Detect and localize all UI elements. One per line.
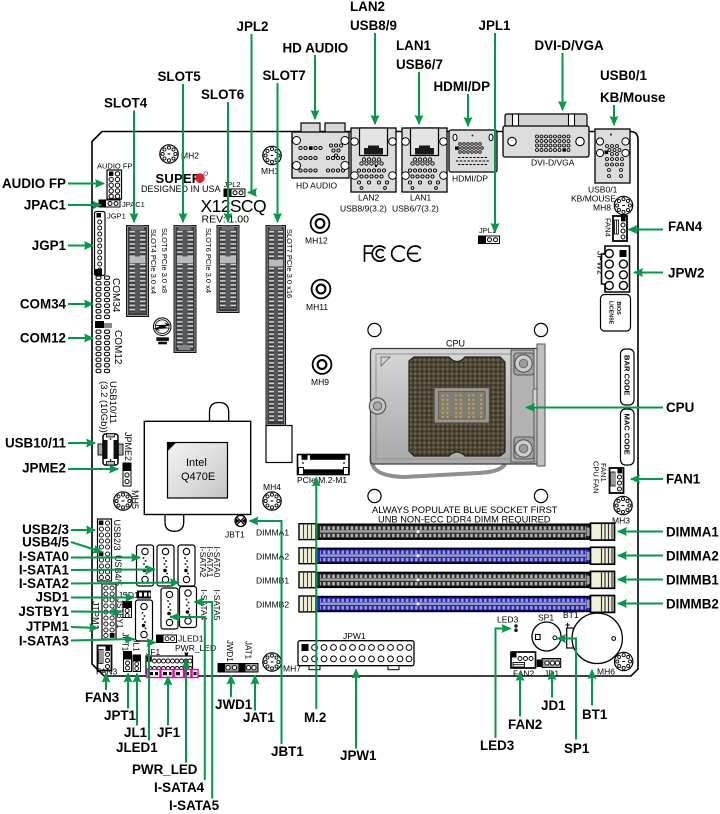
arrow SLOT5 bbox=[182, 84, 184, 222]
USB10/11 connector bbox=[98, 434, 123, 466]
LAN2 connector bbox=[351, 128, 397, 192]
svg-text:SLOT6: SLOT6 bbox=[201, 87, 244, 102]
arrow FAN3 bbox=[105, 674, 107, 691]
arrow USB4/5 bbox=[71, 542, 102, 552]
mounting hole MH3 bbox=[614, 496, 632, 514]
mounting hole MH6 bbox=[615, 652, 633, 670]
DIMMB1 slot bbox=[299, 571, 615, 588]
svg-text:SLOT7: SLOT7 bbox=[263, 68, 306, 83]
mounting hole MH4 bbox=[263, 492, 281, 510]
svg-text:LICENSE: LICENSE bbox=[608, 301, 614, 325]
svg-text:HDMI/DP: HDMI/DP bbox=[452, 174, 488, 184]
svg-text:I-SATA5: I-SATA5 bbox=[212, 590, 222, 621]
LAN1 connector bbox=[402, 128, 448, 192]
svg-text:ALWAYS POPULATE BLUE SOCKET FI: ALWAYS POPULATE BLUE SOCKET FIRST bbox=[372, 505, 558, 515]
AUDIO FP header bbox=[97, 162, 132, 200]
JAT1 jumper bbox=[239, 641, 258, 672]
PCIe M.2-M1 connector bbox=[298, 455, 350, 475]
mounting hole MH7 bbox=[263, 653, 281, 671]
arrow LAN1 bbox=[418, 72, 420, 124]
svg-text:CPU FAN: CPU FAN bbox=[592, 461, 601, 494]
BIOS LICENSE sticker bbox=[601, 295, 631, 332]
svg-text:USB10/11: USB10/11 bbox=[5, 436, 67, 451]
arrow JPME2 bbox=[68, 468, 118, 470]
svg-text:LAN2: LAN2 bbox=[350, 0, 385, 14]
svg-text:JGP1: JGP1 bbox=[32, 238, 67, 253]
svg-text:DESIGNED IN USA: DESIGNED IN USA bbox=[141, 184, 221, 194]
svg-text:COM34: COM34 bbox=[110, 278, 121, 313]
svg-text:BAR CODE: BAR CODE bbox=[623, 355, 632, 396]
svg-text:DIMMA1: DIMMA1 bbox=[256, 528, 289, 538]
arrow JPAC1 bbox=[68, 204, 101, 206]
svg-text:JPAC1: JPAC1 bbox=[24, 198, 67, 213]
mounting hole MH5 bbox=[114, 492, 132, 510]
svg-text:DIMMB2: DIMMB2 bbox=[256, 600, 289, 610]
MAC CODE box bbox=[621, 409, 635, 465]
svg-text:JPL1: JPL1 bbox=[479, 18, 512, 33]
svg-text:JPL2: JPL2 bbox=[224, 180, 241, 189]
arrow USB10/11 bbox=[68, 442, 95, 444]
mounting hole MH9 bbox=[313, 355, 332, 374]
arrow AUDIO FP bbox=[68, 183, 104, 185]
svg-text:JAT1: JAT1 bbox=[243, 710, 275, 725]
svg-text:PWR_LED: PWR_LED bbox=[175, 643, 216, 653]
svg-text:DIMMB1: DIMMB1 bbox=[256, 576, 289, 586]
arrow JTPM1 bbox=[71, 627, 98, 628]
arrow COM34 bbox=[68, 303, 93, 305]
arrow SP1 bbox=[557, 639, 576, 740]
svg-text:DIMMA2: DIMMA2 bbox=[666, 549, 719, 564]
svg-text:MH4: MH4 bbox=[263, 482, 281, 492]
I-SATA4 port bbox=[161, 588, 178, 629]
svg-text:SP1: SP1 bbox=[538, 613, 554, 623]
svg-text:DIMMB1: DIMMB1 bbox=[666, 573, 719, 588]
I-SATA1 port bbox=[157, 545, 174, 586]
svg-text:JWD1: JWD1 bbox=[225, 640, 234, 662]
JWD1 jumper bbox=[218, 640, 239, 672]
svg-text:JTPM1: JTPM1 bbox=[91, 601, 101, 630]
svg-text:CPU: CPU bbox=[666, 400, 694, 415]
SLOT7 PCIe slot bbox=[266, 226, 286, 426]
svg-text:MH1: MH1 bbox=[261, 166, 279, 176]
svg-text:MH8: MH8 bbox=[593, 203, 611, 213]
svg-text:MH11: MH11 bbox=[306, 302, 328, 312]
svg-text:LAN1: LAN1 bbox=[396, 38, 432, 53]
svg-text:SLOT4: SLOT4 bbox=[104, 96, 148, 111]
svg-text:SLOT6 PCIe 3.0 x4: SLOT6 PCIe 3.0 x4 bbox=[204, 228, 213, 293]
arrow DIMMB1 bbox=[618, 579, 663, 581]
svg-text:JPL2: JPL2 bbox=[237, 19, 269, 34]
JSD1 connector bbox=[118, 590, 151, 600]
COM34 header bbox=[95, 269, 121, 319]
arrow JD1 bbox=[551, 671, 553, 698]
arrow HD AUDIO bbox=[314, 55, 316, 119]
svg-text:DVI-D/VGA: DVI-D/VGA bbox=[535, 38, 605, 53]
USB2/3 USB4/5 header bbox=[98, 519, 124, 586]
arrow SLOT6 bbox=[227, 102, 229, 222]
mounting hole MH2 bbox=[160, 145, 178, 163]
arrow LAN2 bbox=[374, 33, 376, 124]
CE mark bbox=[392, 246, 421, 261]
svg-text:JF1: JF1 bbox=[157, 725, 181, 740]
JF1 front panel header bbox=[146, 647, 193, 674]
svg-text:COM12: COM12 bbox=[20, 331, 66, 346]
arrow DIMMA2 bbox=[618, 555, 663, 557]
svg-text:SLOT5 PCIe 3.0 x8: SLOT5 PCIe 3.0 x8 bbox=[160, 228, 169, 293]
svg-text:MH5: MH5 bbox=[130, 490, 140, 509]
svg-text:JSD1: JSD1 bbox=[36, 590, 70, 605]
FCC mark bbox=[365, 246, 385, 261]
svg-text:Q470E: Q470E bbox=[181, 471, 215, 483]
svg-text:FAN4: FAN4 bbox=[668, 219, 703, 234]
arrow JLED1 bbox=[149, 643, 156, 741]
svg-text:FAN4: FAN4 bbox=[604, 218, 613, 237]
SP1 speaker bbox=[532, 613, 561, 652]
callout labels bottom bbox=[85, 690, 608, 813]
svg-text:JGP1: JGP1 bbox=[107, 212, 126, 221]
svg-text:JD1: JD1 bbox=[541, 698, 566, 713]
I-SATA2 port bbox=[178, 545, 195, 586]
arrow USB2/3 bbox=[71, 529, 95, 531]
arrow I-SATA0 bbox=[71, 557, 140, 559]
BAR CODE box bbox=[621, 349, 635, 405]
FAN3 connector bbox=[96, 646, 118, 677]
svg-text:SLOT5: SLOT5 bbox=[158, 69, 202, 84]
JPW1 24-pin ATX power bbox=[298, 631, 414, 670]
CPU socket mounting circles bbox=[368, 323, 381, 336]
svg-text:JPME2: JPME2 bbox=[123, 432, 133, 461]
svg-text:MH9: MH9 bbox=[311, 377, 329, 387]
arrow I-SATA2 bbox=[71, 583, 179, 584]
certification emblem bbox=[153, 318, 171, 344]
svg-text:PCIe M.2-M1: PCIe M.2-M1 bbox=[297, 475, 347, 485]
arrows bbox=[68, 33, 663, 799]
svg-text:MH12: MH12 bbox=[305, 236, 328, 246]
svg-text:I-SATA3: I-SATA3 bbox=[19, 634, 69, 649]
arrow DIMMA1 bbox=[618, 531, 663, 533]
svg-text:UNB NON-ECC DDR4 DIMM REQUIRED: UNB NON-ECC DDR4 DIMM REQUIRED bbox=[378, 515, 551, 525]
JGP1 header bbox=[95, 212, 126, 276]
svg-text:LAN2: LAN2 bbox=[358, 193, 380, 203]
JPW2 power connector bbox=[596, 246, 630, 292]
JPME2 jumper bbox=[123, 432, 133, 486]
svg-text:USB6/7(3.2): USB6/7(3.2) bbox=[392, 204, 439, 214]
svg-text:JPL1: JPL1 bbox=[479, 226, 496, 235]
arrow JPW1 bbox=[355, 670, 357, 749]
svg-text:DIMMA2: DIMMA2 bbox=[256, 552, 289, 562]
arrow DIMMB2 bbox=[618, 603, 663, 605]
svg-text:JLED1: JLED1 bbox=[178, 634, 204, 644]
PCH chip Intel Q470E bbox=[144, 403, 250, 532]
arrow JAT1 bbox=[254, 676, 256, 711]
JPAC1 jumper bbox=[99, 200, 145, 209]
svg-text:JL1: JL1 bbox=[124, 725, 148, 740]
arrow SLOT7 bbox=[277, 83, 279, 222]
svg-text:AUDIO FP: AUDIO FP bbox=[97, 162, 132, 171]
arrow JPW2 bbox=[634, 272, 663, 274]
svg-text:BT1: BT1 bbox=[563, 610, 579, 620]
HDMI/DP connector bbox=[449, 130, 497, 172]
arrow I-SATA1 bbox=[71, 569, 155, 572]
svg-text:USB0/1: USB0/1 bbox=[600, 68, 647, 83]
I-SATA0 port bbox=[137, 545, 154, 586]
svg-text:JLED1: JLED1 bbox=[116, 740, 158, 755]
JLED1 jumper bbox=[157, 634, 204, 644]
mounting hole MH1 bbox=[263, 146, 281, 164]
JL1 jumper bbox=[132, 639, 141, 672]
svg-text:SLOT7 PCIe 3.0 x16: SLOT7 PCIe 3.0 x16 bbox=[285, 229, 294, 298]
svg-text:JPW1: JPW1 bbox=[340, 748, 377, 763]
svg-text:I-SATA4: I-SATA4 bbox=[154, 780, 205, 795]
svg-text:LED3: LED3 bbox=[480, 738, 514, 753]
svg-text:JPT1: JPT1 bbox=[121, 633, 130, 652]
BT1 battery bbox=[563, 610, 622, 664]
svg-text:BT1: BT1 bbox=[582, 707, 608, 722]
arrow JF1 bbox=[167, 677, 169, 726]
svg-text:(3.2 (10Gb)): (3.2 (10Gb)) bbox=[98, 381, 109, 433]
svg-text:LED3: LED3 bbox=[497, 615, 519, 625]
mounting hole MH12 bbox=[311, 214, 330, 233]
svg-text:USB2/3: USB2/3 bbox=[112, 520, 122, 551]
callout labels left bbox=[2, 176, 70, 649]
svg-text:FAN2: FAN2 bbox=[508, 717, 542, 732]
DIMMA2 slot bbox=[299, 547, 615, 564]
mounting hole MH8 bbox=[614, 196, 632, 214]
svg-text:JBT1: JBT1 bbox=[271, 744, 304, 759]
svg-text:DVI-D/VGA: DVI-D/VGA bbox=[531, 158, 575, 168]
svg-text:HD AUDIO: HD AUDIO bbox=[283, 41, 349, 56]
arrow JWD1 bbox=[230, 676, 232, 698]
arrow PWR_LED bbox=[185, 660, 187, 763]
JSTBY1 jumper bbox=[115, 599, 132, 629]
arrow JSD1 bbox=[71, 597, 134, 599]
arrow JPT1 bbox=[127, 674, 129, 709]
arrow JL1 bbox=[136, 674, 138, 726]
svg-text:COM12: COM12 bbox=[112, 330, 123, 365]
arrow I-SATA3 bbox=[71, 639, 134, 641]
Supermicro logo bbox=[141, 171, 221, 194]
white box below SLOT7 bbox=[266, 426, 292, 463]
SLOT4 PCIe slot bbox=[127, 226, 149, 317]
svg-text:MH6: MH6 bbox=[597, 667, 615, 677]
svg-text:USB4/5: USB4/5 bbox=[22, 535, 69, 550]
svg-text:COM34: COM34 bbox=[20, 297, 67, 312]
DIMMA1 slot bbox=[299, 523, 615, 540]
SLOT6 PCIe slot bbox=[217, 226, 239, 313]
arrow JSTBY1 bbox=[71, 611, 121, 614]
I-SATA5 port bbox=[180, 587, 197, 628]
svg-text:HDMI/DP: HDMI/DP bbox=[434, 79, 491, 94]
arrow DVI-D/VGA bbox=[562, 53, 564, 110]
JBT1 battery clear pads bbox=[235, 515, 246, 526]
LED3 component bbox=[497, 615, 519, 633]
svg-text:CPU: CPU bbox=[446, 339, 465, 349]
svg-text:JTPM1: JTPM1 bbox=[26, 619, 70, 634]
SLOT5 PCIe slot bbox=[174, 226, 196, 353]
arrow M.2 bbox=[315, 478, 317, 710]
USB0/1 KB/MOUSE connector bbox=[595, 129, 630, 183]
svg-text:AUDIO FP: AUDIO FP bbox=[2, 176, 66, 191]
callout labels top bbox=[104, 0, 665, 111]
svg-text:I-SATA0: I-SATA0 bbox=[212, 547, 222, 578]
JPT1 jumper bbox=[121, 633, 132, 672]
HD AUDIO connector bbox=[292, 123, 349, 178]
mounting hole MH11 bbox=[312, 280, 331, 299]
arrow JGP1 bbox=[68, 245, 93, 247]
JD1 header bbox=[537, 659, 561, 679]
arrow HDMI/DP bbox=[467, 94, 469, 126]
arrow JPL1 bbox=[494, 33, 496, 232]
svg-text:FAN2: FAN2 bbox=[513, 669, 535, 679]
arrow BT1 bbox=[591, 670, 593, 706]
svg-text:REV: 1.00: REV: 1.00 bbox=[202, 214, 250, 226]
svg-text:MAC CODE: MAC CODE bbox=[623, 414, 632, 455]
svg-text:KB/Mouse: KB/Mouse bbox=[600, 90, 665, 105]
JPL1 jumper bbox=[479, 226, 500, 244]
DIMMB2 slot bbox=[299, 596, 615, 613]
svg-text:I-SATA4: I-SATA4 bbox=[199, 590, 209, 621]
CPU socket bbox=[369, 344, 545, 477]
svg-text:SP1: SP1 bbox=[564, 741, 590, 756]
svg-text:M.2: M.2 bbox=[304, 710, 326, 725]
PWR_LED onboard label bbox=[175, 643, 216, 659]
svg-text:USB8/9(3.2): USB8/9(3.2) bbox=[340, 204, 387, 214]
FAN2 connector bbox=[511, 652, 536, 679]
arrow FAN1 bbox=[631, 478, 663, 480]
motherboard outline bbox=[92, 132, 638, 677]
svg-text:JPW1: JPW1 bbox=[343, 631, 366, 641]
svg-text:MH3: MH3 bbox=[612, 516, 630, 526]
svg-text:JBT1: JBT1 bbox=[225, 530, 245, 540]
svg-text:FAN1: FAN1 bbox=[666, 472, 701, 487]
svg-text:USB8/9: USB8/9 bbox=[350, 18, 397, 33]
JF1 pink pin legend bbox=[147, 670, 198, 678]
arrow JBT1 bbox=[250, 521, 282, 744]
arrow CPU bbox=[526, 407, 663, 409]
arrow SLOT4 bbox=[133, 111, 135, 223]
svg-text:JPT1: JPT1 bbox=[104, 708, 137, 723]
JTPM1 header bbox=[91, 584, 117, 639]
arrow LED3 bbox=[496, 629, 511, 739]
svg-text:USB6/7: USB6/7 bbox=[396, 57, 443, 72]
I-SATA3 port bbox=[136, 600, 153, 641]
svg-text:JAT1: JAT1 bbox=[244, 641, 253, 660]
svg-text:JPW2: JPW2 bbox=[668, 266, 704, 281]
arrow FAN4 bbox=[629, 229, 664, 231]
callout labels right bbox=[666, 219, 719, 612]
svg-text:LAN1: LAN1 bbox=[410, 193, 432, 203]
FAN4 connector bbox=[604, 216, 628, 241]
arrow JPL2 bbox=[248, 34, 252, 193]
svg-text:JSTBY1: JSTBY1 bbox=[18, 604, 69, 619]
COM12 header bbox=[95, 321, 123, 373]
svg-text:BIOS: BIOS bbox=[615, 302, 621, 316]
svg-text:SLOT4 PCIe 3.0 x4: SLOT4 PCIe 3.0 x4 bbox=[149, 229, 158, 294]
svg-text:PWR_LED: PWR_LED bbox=[132, 762, 198, 777]
arrow FAN2 bbox=[519, 672, 521, 717]
JPL2 jumper bbox=[224, 180, 246, 197]
DVI-D/VGA connector bbox=[503, 114, 589, 157]
svg-text:HD AUDIO: HD AUDIO bbox=[296, 181, 337, 191]
arrow I-SATA4 bbox=[171, 617, 205, 780]
svg-text:DIMMB2: DIMMB2 bbox=[666, 597, 719, 612]
arrow USB0/1 KB/Mouse bbox=[613, 105, 615, 125]
arrow COM12 bbox=[68, 337, 93, 339]
FAN1 connector bbox=[592, 461, 624, 494]
svg-text:Intel: Intel bbox=[186, 457, 207, 469]
svg-text:FAN3: FAN3 bbox=[85, 690, 119, 705]
svg-text:JPME2: JPME2 bbox=[22, 461, 66, 476]
svg-text:JL1: JL1 bbox=[132, 639, 141, 652]
arrow I-SATA5 bbox=[195, 602, 213, 799]
svg-text:DIMMA1: DIMMA1 bbox=[666, 525, 719, 540]
svg-text:I-SATA5: I-SATA5 bbox=[169, 798, 220, 813]
